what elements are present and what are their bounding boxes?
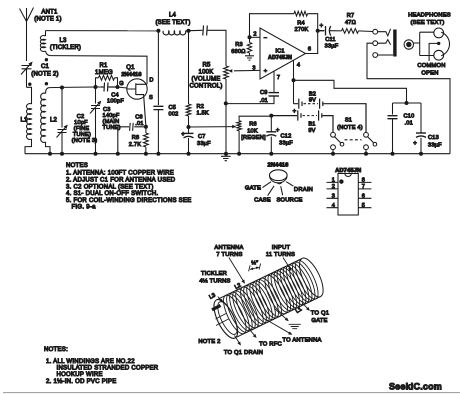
variable capacitor C3 [90, 87, 121, 154]
inductor L1 [20, 104, 31, 154]
svg-text:R8: R8 [132, 135, 140, 141]
svg-text:C12: C12 [281, 133, 292, 139]
svg-text:7: 7 [277, 75, 280, 81]
node C9/R5 [224, 101, 228, 105]
capacitor C13 [413, 103, 442, 154]
resistor R8 [129, 127, 148, 154]
svg-text:INSULATED STRANDED COPPER: INSULATED STRANDED COPPER [57, 365, 159, 371]
svg-text:1MEG: 1MEG [95, 70, 113, 76]
wire pin4 node [294, 60, 407, 103]
svg-text:Q1: Q1 [126, 65, 135, 71]
wire antenna to L1 [27, 87, 32, 104]
svg-text:S1: S1 [345, 118, 352, 124]
svg-text:COMMON: COMMON [417, 63, 445, 69]
polarity dot L3 [45, 58, 48, 61]
svg-text:SeekIC.com: SeekIC.com [389, 382, 442, 392]
svg-text:2. 1½-IN. OD PVC PIPE: 2. 1½-IN. OD PVC PIPE [46, 378, 117, 385]
capacitor C11 [318, 24, 342, 50]
resistor R7 [342, 13, 373, 33]
svg-text:R2: R2 [197, 104, 205, 110]
svg-text:6: 6 [308, 47, 311, 53]
node L2/C2 [60, 86, 64, 90]
svg-text:INPUT: INPUT [272, 245, 291, 251]
svg-text:+: + [181, 132, 185, 138]
ground bus [25, 153, 450, 155]
svg-text:ANTENNA: ANTENNA [214, 245, 243, 251]
node B1/R6/C12 [269, 114, 273, 118]
svg-text:HOOKUP WIRE: HOOKUP WIRE [57, 372, 103, 378]
node R2/C7/regen [187, 125, 191, 129]
coil labels [198, 245, 329, 356]
rim highlight marks [216, 314, 229, 326]
svg-text:7 TURNS: 7 TURNS [216, 252, 242, 258]
svg-text:OPEN: OPEN [421, 70, 438, 76]
antenna winding L2 [236, 284, 267, 328]
svg-text:2: 2 [253, 32, 256, 38]
svg-text:9V: 9V [309, 98, 316, 104]
svg-text:GATE: GATE [311, 318, 327, 324]
svg-text:C13: C13 [428, 135, 439, 141]
svg-text:C10: C10 [404, 114, 415, 120]
svg-text:L3: L3 [59, 38, 67, 44]
coupling capacitor [203, 26, 208, 36]
svg-text:680Ω: 680Ω [231, 49, 245, 55]
svg-text:(NOTE 3): (NOTE 3) [72, 138, 98, 144]
right end cap [295, 255, 328, 300]
svg-text:R1: R1 [99, 63, 108, 69]
2N4416 package pinout [245, 162, 313, 203]
svg-text:C7: C7 [198, 134, 206, 140]
svg-text:IC1: IC1 [275, 48, 284, 54]
capacitor C5 [153, 105, 178, 154]
svg-text:TO Q1 DRAIN: TO Q1 DRAIN [224, 350, 263, 356]
capacitor C7 [181, 127, 211, 154]
svg-text:(NOTE 2): (NOTE 2) [31, 72, 58, 78]
svg-text:CONTROL): CONTROL) [189, 84, 222, 90]
svg-text:TO ANTENNA: TO ANTENNA [282, 338, 321, 344]
resistor R3 [231, 37, 254, 60]
svg-text:8: 8 [362, 177, 365, 183]
battery B2 [294, 91, 367, 132]
svg-text:+: + [413, 141, 417, 147]
svg-text:B2: B2 [309, 91, 316, 97]
svg-text:L3: L3 [208, 293, 216, 301]
node R1/C4 right [116, 85, 120, 89]
polarity dot L2 [45, 82, 48, 85]
resistor R2 [186, 31, 209, 127]
wire to gate [118, 87, 127, 88]
svg-text:2: 2 [332, 184, 335, 190]
L3 lead smudge [212, 305, 221, 309]
svg-text:TO RFC: TO RFC [259, 342, 282, 348]
svg-text:+: + [276, 128, 280, 134]
potentiometer R5 (volume) [189, 63, 260, 154]
svg-text:4. S1- DUAL ON-OFF SWITCH.: 4. S1- DUAL ON-OFF SWITCH. [66, 191, 158, 197]
notes list [66, 163, 192, 211]
svg-text:3. C2 OPTIONAL (SEE TEXT): 3. C2 OPTIONAL (SEE TEXT) [66, 184, 154, 190]
svg-text:R3: R3 [235, 42, 243, 48]
svg-text:3: 3 [332, 194, 335, 200]
svg-text:4½ TURNS: 4½ TURNS [199, 278, 230, 285]
svg-text:SOURCE: SOURCE [276, 198, 302, 204]
svg-text:.01: .01 [135, 121, 143, 127]
svg-text:2N4416: 2N4416 [121, 72, 141, 78]
svg-text:+: + [293, 109, 297, 115]
svg-text:7: 7 [362, 184, 365, 190]
svg-text:C11: C11 [325, 37, 336, 43]
wire pin6 output [306, 31, 318, 54]
battery B1 [271, 109, 333, 134]
svg-text:TICKLER: TICKLER [201, 271, 227, 277]
potentiometer R6 (regen) [232, 116, 271, 154]
capacitor C6 [118, 115, 146, 154]
svg-text:NOTE 2: NOTE 2 [198, 339, 220, 345]
svg-text:2N4416: 2N4416 [268, 162, 290, 168]
node source/C6/R8 [144, 125, 148, 129]
svg-text:R4: R4 [297, 21, 305, 27]
input winding L1 [260, 272, 291, 316]
svg-text:L4: L4 [169, 13, 177, 19]
svg-text:33µF: 33µF [428, 142, 442, 148]
svg-text:2. ADJUST C1 FOR ANTENNA USED: 2. ADJUST C1 FOR ANTENNA USED [66, 178, 176, 184]
inductor L4 [155, 13, 190, 35]
svg-text:1. ANTENNA: 100FT COPPER WIRE: 1. ANTENNA: 100FT COPPER WIRE [66, 171, 174, 177]
wire cap to R5 [207, 30, 226, 66]
node gate/C3/R1 [94, 85, 98, 89]
headphones symbol [404, 13, 451, 77]
svg-text:4: 4 [297, 63, 300, 69]
svg-text:C5: C5 [169, 105, 177, 111]
coil leader arrows [218, 258, 310, 346]
svg-text:5: 5 [362, 203, 365, 209]
svg-text:.01: .01 [405, 121, 413, 127]
winding notes [44, 347, 159, 385]
svg-text:.01: .01 [260, 98, 268, 104]
svg-text:R5: R5 [202, 63, 211, 69]
svg-text:(SEE TEXT): (SEE TEXT) [155, 20, 190, 26]
left rim inner [214, 299, 241, 337]
svg-text:R7: R7 [347, 13, 355, 19]
phone jack J1 [373, 29, 397, 58]
wire jack return [367, 43, 450, 154]
op-amp IC1 AD745JN [252, 28, 311, 81]
svg-text:(TICKLER): (TICKLER) [50, 45, 81, 51]
svg-text:NOTES: NOTES [66, 163, 88, 169]
svg-text:1. ALL WINDINGS ARE NO.22: 1. ALL WINDINGS ARE NO.22 [46, 359, 135, 365]
wire pin2 [250, 36, 261, 38]
svg-text:100K: 100K [199, 70, 214, 76]
svg-text:C1: C1 [41, 64, 50, 70]
svg-text:3: 3 [252, 66, 255, 72]
transistor Q1 2N4416 [121, 65, 153, 127]
capacitor C12 [266, 116, 293, 154]
svg-text:4: 4 [332, 203, 335, 209]
svg-text:47Ω: 47Ω [345, 20, 356, 26]
wire C5 branch [157, 31, 159, 105]
svg-text:1: 1 [332, 177, 335, 183]
svg-text:5. FOR COIL-WINDING DIRECTIONS: 5. FOR COIL-WINDING DIRECTIONS SEE [66, 198, 192, 204]
svg-text:11 TURNS: 11 TURNS [266, 252, 295, 258]
svg-text:ANT1: ANT1 [41, 10, 58, 16]
chassis ground [221, 154, 231, 161]
wire L4 to cap [186, 29, 203, 32]
svg-text:+: + [264, 69, 268, 75]
svg-text:33µF: 33µF [325, 43, 339, 49]
svg-text:G: G [119, 81, 124, 87]
node L4 right [187, 29, 191, 33]
svg-text:CASE: CASE [254, 198, 271, 204]
svg-text:B1: B1 [308, 122, 315, 128]
svg-text:L1: L1 [20, 118, 28, 124]
wire tickler feedback [51, 56, 148, 85]
svg-text:33µF: 33µF [279, 141, 293, 147]
bottom border [3, 392, 460, 394]
left rim outer [209, 296, 242, 341]
svg-text:100pF: 100pF [107, 99, 124, 105]
svg-text:2.7K: 2.7K [129, 142, 141, 148]
variable capacitor C2 [57, 88, 98, 154]
tickler winding L3 [219, 292, 250, 336]
svg-text:NOTES:: NOTES: [44, 347, 68, 353]
svg-text:C9: C9 [260, 90, 268, 96]
svg-text:(NOTE 1): (NOTE 1) [34, 17, 61, 23]
svg-text:C6: C6 [135, 115, 143, 121]
capacitor C4 [101, 83, 125, 105]
feedback wire + resistor R4 [250, 11, 318, 37]
svg-text:33µF: 33µF [197, 141, 211, 147]
svg-text:9V: 9V [308, 128, 315, 134]
AD745JN package pinout [327, 168, 372, 215]
polarity dot L1 [28, 83, 31, 86]
switch S1 [331, 118, 377, 154]
svg-text:[REGEN]: [REGEN] [241, 135, 266, 141]
svg-text:D: D [149, 78, 153, 84]
variable capacitor C1 [21, 62, 59, 88]
coil form pictorial [209, 255, 328, 342]
svg-text:S: S [149, 95, 153, 101]
svg-text:6: 6 [362, 194, 365, 200]
wire regen [189, 126, 234, 128]
svg-text:HEADPHONES: HEADPHONES [408, 13, 451, 19]
svg-text:DRAIN: DRAIN [294, 187, 313, 193]
svg-text:002: 002 [169, 112, 179, 118]
svg-text:+: + [320, 24, 324, 30]
antenna ANT1 [20, 8, 62, 62]
svg-text:½″: ½″ [251, 260, 258, 267]
svg-text:TO Q1: TO Q1 [311, 311, 329, 317]
svg-text:AD745JN: AD745JN [268, 55, 292, 61]
capacitor C10 [388, 103, 422, 154]
wire gate rail [50, 86, 101, 89]
capacitor C9 [226, 71, 279, 104]
node L4 left / C5 [156, 29, 160, 33]
svg-text:(SEE TEXT): (SEE TEXT) [411, 20, 445, 26]
svg-text:L2: L2 [50, 118, 58, 124]
svg-text:(NOTE 4): (NOTE 4) [337, 125, 363, 131]
inductor L2 [41, 88, 58, 154]
wire top rail [46, 30, 159, 32]
svg-text:10K: 10K [247, 128, 258, 134]
svg-text:GATE: GATE [245, 186, 261, 192]
svg-text:−: − [264, 36, 268, 42]
svg-text:270K: 270K [295, 27, 309, 33]
svg-text:R6: R6 [249, 122, 257, 128]
resistor R1 [95, 63, 117, 87]
svg-text:FIG. 9-a: FIG. 9-a [72, 205, 97, 211]
inductor L3 (tickler) [40, 31, 81, 56]
svg-text:1.5K: 1.5K [197, 111, 209, 117]
svg-text:(VOLUME: (VOLUME [192, 77, 221, 83]
